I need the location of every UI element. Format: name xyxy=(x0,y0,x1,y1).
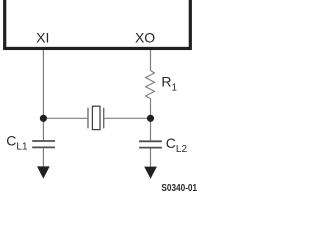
wire resistor bottom to node B xyxy=(150,99,152,141)
capacitor CL2 bottom plate xyxy=(139,147,162,149)
crystal Y1 body xyxy=(92,106,100,129)
svg-text:XI: XI xyxy=(36,30,49,46)
node A junction dot xyxy=(40,115,47,122)
svg-text:XO: XO xyxy=(135,30,155,46)
wire CL1 to ground xyxy=(42,148,44,167)
wire CL2 to ground xyxy=(150,149,152,168)
wire crystal right to node B xyxy=(104,117,151,119)
resistor R1 xyxy=(146,71,155,99)
svg-text:CL1: CL1 xyxy=(6,132,28,152)
crystal Y1 right plate xyxy=(103,108,105,129)
node B junction dot xyxy=(147,115,154,122)
ground (left) xyxy=(37,166,50,178)
crystal Y1 left plate xyxy=(87,108,89,129)
wire XO pin down to resistor xyxy=(150,50,152,71)
svg-text:CL2: CL2 xyxy=(166,135,188,155)
IC box (top edge cropped above frame) xyxy=(5,0,191,48)
capacitor CL1 bottom plate xyxy=(32,146,55,148)
capacitor CL1 top plate xyxy=(32,140,55,142)
svg-text:S0340-01: S0340-01 xyxy=(161,183,197,193)
ground (right) xyxy=(144,167,157,179)
svg-text:R1: R1 xyxy=(161,73,177,93)
wire XI pin down to node A xyxy=(42,50,44,140)
wire node A to crystal left xyxy=(43,117,88,119)
capacitor CL2 top plate xyxy=(139,140,162,142)
